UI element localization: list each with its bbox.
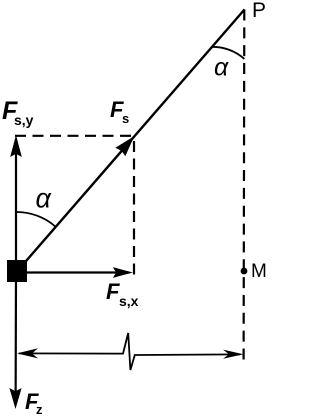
svg-text:α: α [214,54,229,82]
svg-text:P: P [252,0,266,22]
point M marker [241,268,248,275]
svg-text:z: z [36,402,43,417]
svg-text:M: M [251,261,267,282]
dashed projection line (top horizontal, F_s,y tip to F_s tip) [15,135,135,137]
force vector F_s,y shaft (main vertical line, upward part) [15,139,17,272]
dashed projection line (inner vertical, F_s tip down to F_s,x tip) [133,141,135,276]
force vector F_s,y arrowhead [10,135,22,157]
anchor block (black square at origin) [7,260,27,282]
svg-text:s,y: s,y [14,112,34,128]
angle arc alpha (top, at P) [212,47,244,59]
svg-text:α: α [36,184,53,214]
force vector F_s line (diagonal from block to P) [17,9,245,272]
force vector F_s,x shaft [27,271,128,273]
force vector F_z arrowhead [9,388,21,409]
dashed reference line through P and M (right vertical) [243,10,246,361]
force vector F_z shaft (main vertical line, downward part) [15,272,18,404]
dimension line break symbol (zigzag) [120,333,138,370]
dimension line right segment with arrowhead [138,353,240,356]
force vector F_s arrowhead [115,136,134,156]
force vector F_s,x arrowhead [113,267,133,278]
svg-text:F: F [106,279,120,304]
svg-text:s: s [122,111,129,126]
dimension line left segment with arrowhead [19,352,120,354]
svg-text:s,x: s,x [119,293,139,309]
angle arc alpha (bottom, at block) [16,212,55,227]
